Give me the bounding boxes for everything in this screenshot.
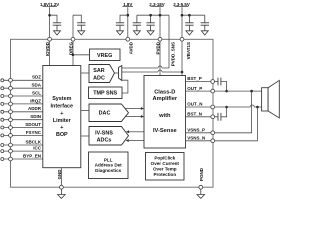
block DAC bbox=[89, 104, 129, 122]
svg-text:ICC: ICC bbox=[33, 146, 42, 151]
node BST_P/OUT_P bbox=[225, 90, 228, 93]
ground below C_VBAT1 bbox=[186, 25, 193, 35]
svg-text:Interface: Interface bbox=[51, 104, 73, 110]
node VSNS_P tap bbox=[250, 90, 253, 93]
wire DAC to Class-D (P) bbox=[125, 108, 141, 110]
wire DAC to Class-D (N) bbox=[125, 116, 141, 118]
wire OUT_N external (hop at VSNS_P crossing) bbox=[215, 106, 262, 108]
wire mux in2 from VBAT1S (hop over PVDD) bbox=[122, 71, 182, 73]
pin ADDR bbox=[1, 106, 43, 114]
svg-text:+: + bbox=[60, 125, 63, 131]
svg-text:ADCs: ADCs bbox=[97, 138, 112, 144]
svg-text:+: + bbox=[60, 111, 63, 117]
node IOVDD tap bbox=[48, 14, 51, 17]
wire AVDD supply bbox=[127, 7, 129, 39]
pin SDA bbox=[1, 83, 43, 91]
svg-text:TMP SNS: TMP SNS bbox=[93, 91, 117, 97]
svg-text:BOP: BOP bbox=[56, 132, 68, 138]
supply label 1.8V/1.2V bbox=[40, 2, 59, 7]
wire PVDD supply bbox=[159, 7, 161, 39]
svg-text:System: System bbox=[52, 96, 71, 102]
svg-text:IRQZ: IRQZ bbox=[30, 98, 41, 103]
capacitor C_BSTN bbox=[215, 113, 221, 121]
svg-text:Over Temp: Over Temp bbox=[153, 167, 177, 172]
ground below GND bbox=[58, 189, 66, 198]
svg-text:SDZ: SDZ bbox=[32, 75, 41, 80]
wire BST_N bbox=[186, 112, 215, 119]
wire VBAT1S supply bbox=[181, 7, 183, 39]
node AVDD tap bbox=[127, 14, 130, 17]
wire DREG internal to System and VREG bbox=[72, 41, 74, 65]
capacitor C_VBAT1 bbox=[185, 15, 193, 25]
svg-text:SDIN: SDIN bbox=[30, 114, 41, 119]
pin FSYNC bbox=[1, 130, 43, 138]
supply label 2.3-18V bbox=[149, 2, 164, 7]
wire VSNS_P external bbox=[215, 91, 252, 133]
pin GND bbox=[60, 168, 62, 188]
wire OUT_N bbox=[186, 102, 215, 109]
svg-text:Class-D: Class-D bbox=[154, 89, 175, 95]
svg-text:BST_P: BST_P bbox=[187, 76, 202, 81]
node PVDD rail taps bbox=[149, 14, 152, 17]
svg-text:Over Current: Over Current bbox=[151, 161, 180, 166]
block TMP SNS bbox=[89, 87, 123, 99]
svg-text:Diagnostics: Diagnostics bbox=[95, 168, 121, 173]
ground below C_PVDD1 bbox=[133, 25, 140, 35]
node VBAT1S rail taps bbox=[181, 14, 184, 17]
block PLL Address Det Diagnostics bbox=[89, 152, 129, 179]
svg-text:Pop/Click: Pop/Click bbox=[154, 155, 175, 160]
capacitor C_PVDD1 bbox=[133, 15, 141, 25]
wire VSNS_N bbox=[186, 136, 215, 143]
pin ICC bbox=[1, 146, 43, 154]
svg-text:GND: GND bbox=[57, 169, 62, 180]
svg-text:BYP_EN: BYP_EN bbox=[23, 153, 41, 158]
wire IOVDD internal bbox=[49, 41, 51, 65]
pin VBAT1S bbox=[180, 37, 184, 41]
pin PVDD bbox=[158, 37, 162, 41]
svg-text:VBAT1S: VBAT1S bbox=[186, 42, 191, 59]
svg-text:VSNS_P: VSNS_P bbox=[187, 128, 205, 133]
svg-text:OUT_P: OUT_P bbox=[187, 86, 202, 91]
ground below C_DREG bbox=[78, 25, 85, 35]
wire BST_P bbox=[186, 76, 215, 83]
pin IOVDD bbox=[48, 37, 52, 41]
wire IOVDD supply bbox=[49, 7, 51, 39]
pin PGND bbox=[199, 185, 203, 189]
block Class-D Amplifier with IV-Sense bbox=[144, 76, 186, 149]
svg-text:VSNS_N: VSNS_N bbox=[187, 136, 205, 141]
svg-text:VREG: VREG bbox=[97, 53, 112, 59]
svg-text:AVDD: AVDD bbox=[128, 41, 133, 54]
chip boundary bbox=[11, 39, 214, 187]
svg-text:IV-SNS: IV-SNS bbox=[95, 130, 113, 136]
svg-text:PVDD_SNS: PVDD_SNS bbox=[171, 42, 176, 66]
node BST_N/OUT_N bbox=[225, 106, 228, 109]
wire BST_P to OUT_P bbox=[221, 82, 227, 92]
pin SCL bbox=[1, 90, 43, 98]
wire PVDD_SNS drop bbox=[168, 15, 170, 68]
svg-text:Protection: Protection bbox=[153, 172, 176, 177]
wire System to SAR bbox=[81, 72, 89, 74]
wire OUT_P bbox=[186, 86, 215, 93]
capacitor C_VBAT2 bbox=[201, 15, 209, 25]
supply label 2.3-5.5V bbox=[173, 2, 190, 7]
wire VBAT1S rail bbox=[182, 14, 205, 16]
svg-text:PGND: PGND bbox=[199, 167, 204, 181]
svg-text:ADDR: ADDR bbox=[28, 106, 42, 111]
pin BYP_EN bbox=[1, 153, 43, 161]
pin SBCLK bbox=[1, 139, 43, 147]
svg-text:BST_N: BST_N bbox=[187, 112, 202, 117]
wire PVDD internal to Class-D bbox=[159, 41, 161, 75]
wire BST_N to OUT_N bbox=[221, 107, 227, 117]
ground below C_AVDD bbox=[117, 25, 124, 35]
wire PVDD rail bbox=[137, 14, 169, 16]
capacitor C_AVDD bbox=[116, 23, 124, 25]
mux U_MUX bbox=[115, 72, 119, 74]
pin SDOUT bbox=[1, 122, 43, 129]
node VSNS_N tap bbox=[256, 106, 259, 109]
capacitor C_IOVDD bbox=[53, 23, 61, 25]
svg-text:SBCLK: SBCLK bbox=[26, 139, 42, 144]
svg-text:with: with bbox=[158, 113, 171, 119]
svg-text:Amplifier: Amplifier bbox=[152, 96, 177, 102]
wire mux in3 from TMP SNS bbox=[122, 80, 128, 93]
svg-text:FSYNC: FSYNC bbox=[26, 130, 42, 135]
wire VBAT1S internal to Class-D bbox=[181, 41, 183, 75]
block IV-SNS ADCs bbox=[89, 127, 129, 146]
speaker bbox=[262, 80, 280, 118]
pin AVDD bbox=[126, 37, 130, 41]
block System Interface + Limiter + BOP bbox=[43, 66, 81, 168]
ground below C_VBAT2 bbox=[201, 25, 208, 35]
svg-text:SDOUT: SDOUT bbox=[25, 122, 41, 127]
block VREG bbox=[90, 49, 121, 61]
svg-text:SCL: SCL bbox=[32, 90, 41, 95]
wire OUT_P external bbox=[215, 90, 262, 92]
svg-text:ADC: ADC bbox=[93, 76, 105, 82]
wire DREG to C_DREG bbox=[73, 15, 81, 23]
svg-text:OUT_N: OUT_N bbox=[187, 102, 202, 107]
capacitor C_BSTP bbox=[215, 78, 221, 86]
wire VSNS_N external bbox=[215, 107, 258, 141]
svg-text:IV-Sense: IV-Sense bbox=[153, 128, 177, 134]
ground below PGND bbox=[197, 189, 205, 198]
wire to C_IOVDD bbox=[50, 15, 57, 23]
wire System to IV-SNS bbox=[81, 135, 89, 137]
svg-text:Address Det: Address Det bbox=[95, 163, 123, 168]
svg-text:PLL: PLL bbox=[104, 157, 113, 162]
wire mux in1 from PVDD_SNS (hop over PVDD) bbox=[122, 67, 169, 69]
svg-text:DAC: DAC bbox=[99, 111, 111, 117]
pin IRQZ bbox=[1, 98, 43, 106]
wire System to DAC bbox=[81, 110, 89, 112]
svg-text:SAR: SAR bbox=[93, 68, 104, 74]
pin SDIN bbox=[1, 114, 43, 122]
pin DREG bbox=[71, 37, 75, 41]
svg-text:Limiter: Limiter bbox=[53, 118, 72, 124]
ground below C_IOVDD bbox=[54, 25, 61, 35]
capacitor C_PVDD2 bbox=[146, 15, 154, 25]
capacitor C_DREG bbox=[77, 23, 85, 25]
wire Class-D to IV-SNS (V) bbox=[129, 140, 144, 142]
wire VSNS_P bbox=[186, 128, 215, 135]
wire Class-D to IV-SNS (I) bbox=[129, 131, 144, 133]
pin SDZ bbox=[1, 75, 43, 83]
ground below C_PVDD2 bbox=[147, 25, 154, 35]
supply label 1.8V bbox=[123, 2, 134, 7]
block Pop/Click protection bbox=[146, 153, 185, 181]
wire to C_AVDD bbox=[120, 15, 128, 23]
svg-text:SDA: SDA bbox=[31, 83, 41, 88]
block SAR ADC bbox=[89, 65, 115, 83]
